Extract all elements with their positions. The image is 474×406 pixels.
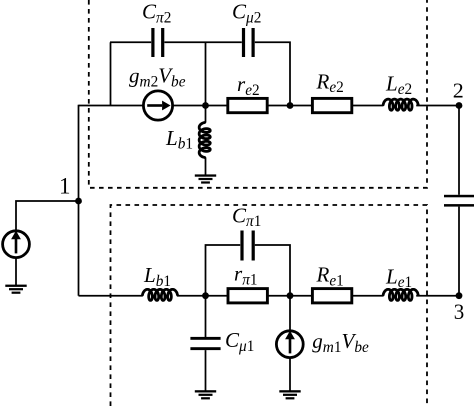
junction dot: upper rail re2/Re2: [287, 102, 294, 109]
node 3 terminal dot: [456, 292, 463, 299]
capacitor Cmu1: [190, 337, 220, 350]
resistor Re1: [312, 289, 351, 303]
svg-text:1: 1: [59, 173, 71, 198]
wire: vertical from cap rail to upper rail junction: [205, 42, 207, 105]
current source I_in (input): [3, 231, 30, 258]
ground (input source): [5, 285, 26, 294]
ground (gm1): [279, 390, 300, 399]
wire: node 2 down to coupling cap: [458, 106, 460, 195]
wire: gm1 source to ground: [289, 358, 291, 391]
current source gm1*Vbe: [276, 331, 303, 358]
wire: stub from upper rail up to Cpi2 rail: [110, 42, 112, 106]
dashed box: transistor Q2 small-signal model: [89, 0, 427, 188]
node 1 junction dot: [75, 198, 82, 205]
wire: Cpi1 bridge: [206, 245, 291, 296]
ground (Cmu1): [195, 390, 216, 399]
wire: Lb1 to ground: [205, 158, 207, 175]
inductor Lb1 (vertical coil): [199, 123, 210, 158]
wire: input source to ground: [15, 258, 17, 285]
svg-text:2: 2: [453, 79, 464, 103]
junction dot: lower rail rpi1 left: [202, 292, 209, 299]
ground (Lb1): [195, 174, 216, 183]
inductor Lb1 (vertical, Q2 base) wire above: [205, 106, 207, 123]
inductor Le1: [383, 289, 418, 300]
wire: lower rail (node 1 to node 3): [79, 295, 460, 297]
capacitor C23 (between nodes 2 and 3): [444, 195, 474, 207]
wire: coupling cap down to node 3: [458, 207, 460, 296]
dashed box: transistor Q1 small-signal model: [111, 205, 428, 406]
resistor Re2: [312, 98, 351, 112]
current source gm2*Vbe: [143, 91, 172, 120]
resistor rpi1: [228, 289, 267, 303]
wire: left column node1 vertical: [78, 105, 80, 296]
capacitor Cpi2: [151, 28, 164, 57]
wire: gm1 source from lower rail down: [289, 296, 291, 331]
wire: upper rail (node 1 to node 2): [79, 105, 460, 107]
svg-text:3: 3: [454, 299, 465, 324]
inductor Lb1 (lower, Q1 base): [143, 289, 178, 300]
junction dot: lower rail rpi1 right: [287, 292, 294, 299]
resistor re2: [228, 98, 267, 112]
wire: Cmu1 to ground: [205, 350, 207, 390]
wire: Cmu1 from lower rail down: [205, 296, 207, 337]
junction dot: upper rail / Lb1 / Cpi2-Cmu2: [202, 102, 209, 109]
wire: capacitor top rail: [110, 42, 290, 106]
node 2 terminal dot: [456, 102, 463, 109]
capacitor Cpi1: [240, 231, 254, 261]
inductor Le2: [383, 99, 418, 110]
wire: node 1 to input source: [16, 201, 79, 230]
capacitor Cmu2: [242, 28, 255, 57]
